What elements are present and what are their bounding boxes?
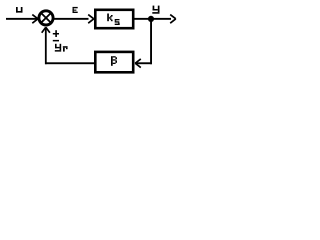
label beta — [111, 56, 117, 66]
wire output y — [135, 18, 172, 20]
label k — [107, 14, 112, 22]
summing junction — [39, 11, 53, 25]
wire feedback horizontal right — [135, 62, 152, 64]
arrowhead into summing junction — [32, 15, 38, 24]
wire feedback vertical left — [45, 28, 47, 65]
label epsilon — [73, 7, 78, 13]
junction node — [148, 16, 154, 22]
sign plus — [53, 30, 59, 37]
label s subscript — [115, 19, 120, 25]
block ks — [95, 10, 133, 28]
wire epsilon — [54, 18, 89, 20]
wire feedback vertical right — [150, 19, 152, 64]
arrowhead output — [170, 15, 176, 24]
label yr — [55, 44, 68, 52]
arrowhead into block ks — [88, 15, 94, 24]
label u — [16, 7, 23, 13]
arrowhead into summing junction from below — [42, 27, 50, 33]
sign minus — [53, 40, 59, 42]
wire feedback horizontal left — [45, 62, 95, 64]
label y — [152, 6, 159, 14]
block beta — [95, 52, 133, 72]
wire input u — [6, 18, 37, 20]
arrowhead into block beta — [135, 59, 141, 68]
